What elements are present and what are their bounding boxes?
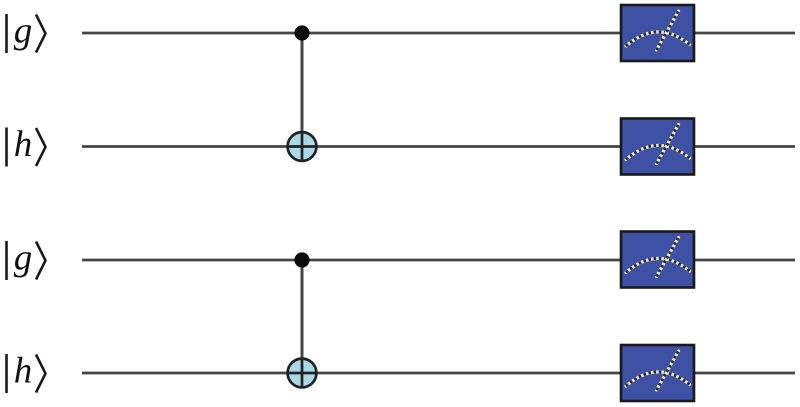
cnot 1 target (q1) [288, 132, 317, 161]
label ket g (q0) [7, 11, 46, 54]
svg-text:g: g [14, 11, 33, 52]
cnot 2 vertical wire [301, 260, 304, 387]
wire q0 [82, 32, 795, 35]
measurement gate q3 [621, 345, 694, 401]
cnot 2 target (q3) [288, 359, 317, 388]
svg-text:h: h [14, 351, 33, 392]
measurement gate q2 [621, 232, 694, 288]
label ket g (q2) [7, 238, 46, 281]
wire q1 [82, 145, 795, 148]
measurement gate q0 [621, 5, 694, 61]
svg-text:g: g [14, 238, 33, 279]
wire q2 [82, 259, 795, 262]
cnot 1 control dot (q0) [294, 25, 309, 40]
wire q3 [82, 372, 795, 375]
label ket h (q1) [7, 124, 46, 167]
measurement gate q1 [621, 119, 694, 175]
cnot 2 control dot (q2) [294, 252, 309, 267]
label ket h (q3) [7, 351, 46, 394]
cnot 1 vertical wire [301, 33, 304, 161]
svg-text:h: h [14, 124, 33, 165]
